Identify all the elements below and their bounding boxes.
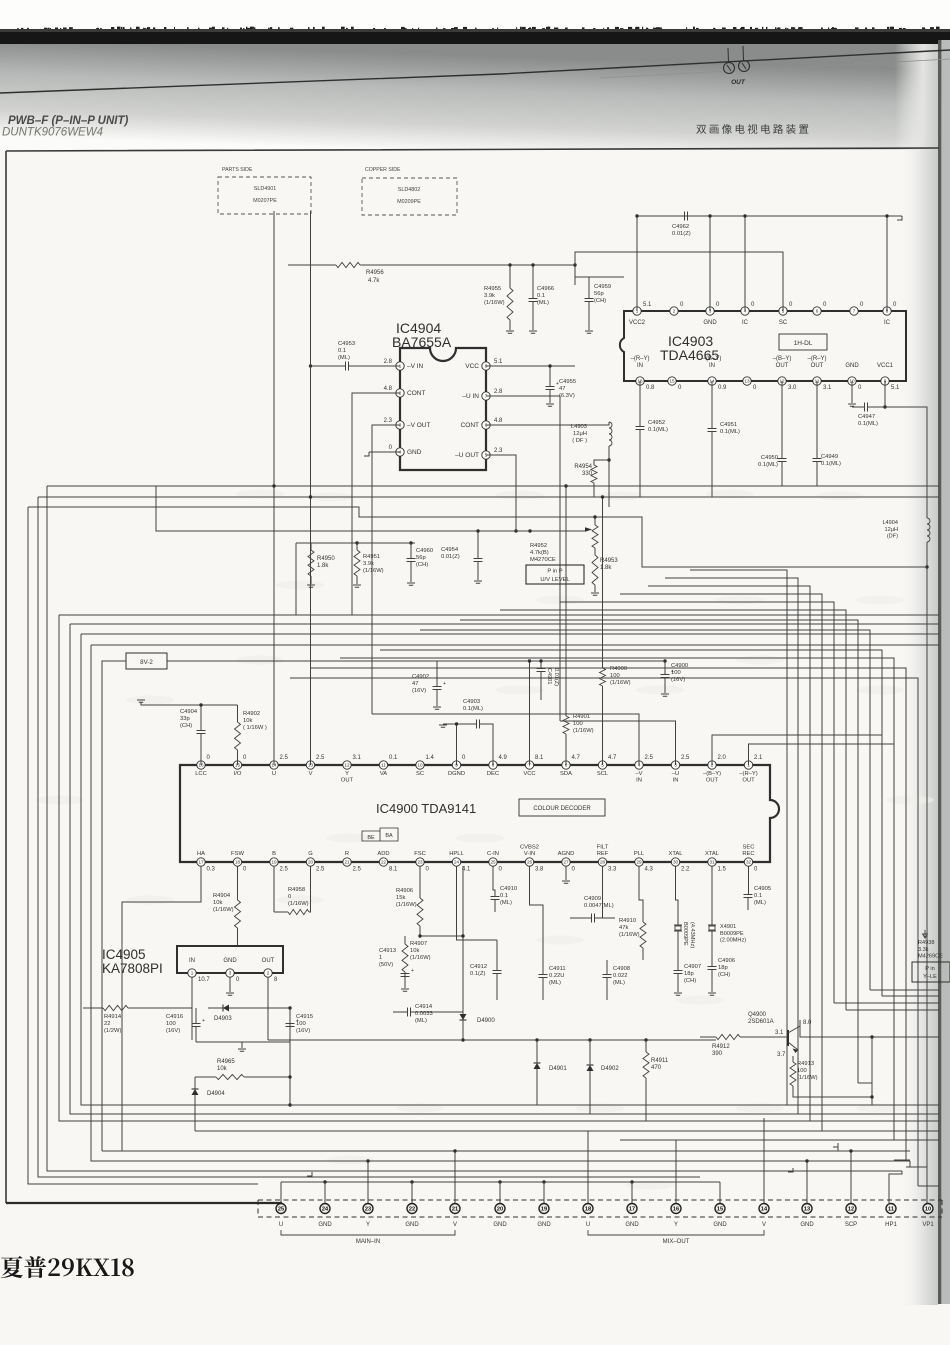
wire nest left column 5 — [70, 624, 939, 1114]
capacitor C4913 1 — [401, 974, 410, 977]
svg-text:10k: 10k — [213, 900, 222, 906]
resistor R4954 330 — [594, 460, 609, 465]
svg-text:GND: GND — [703, 320, 717, 326]
svg-text:2.2: 2.2 — [681, 867, 690, 873]
wire pin6 CONT right — [486, 422, 609, 425]
svg-text:2.5: 2.5 — [353, 867, 362, 873]
svg-text:2: 2 — [267, 971, 270, 976]
ground at rail right — [897, 216, 902, 220]
svg-text:–V OUT: –V OUT — [407, 422, 431, 429]
capacitor C4909 0.0047 — [592, 914, 595, 923]
svg-text:0.3: 0.3 — [207, 867, 216, 873]
svg-text:C4909: C4909 — [584, 896, 601, 902]
OUT probe circles on crease — [724, 46, 750, 86]
svg-text:18p: 18p — [684, 971, 694, 977]
svg-text:0.0033: 0.0033 — [415, 1011, 433, 1017]
svg-text:CONT: CONT — [407, 390, 425, 397]
svg-text:18p: 18p — [718, 965, 728, 971]
resistor R4956 4.7k — [336, 262, 360, 267]
svg-text:IN: IN — [189, 958, 195, 964]
svg-text:3.9k: 3.9k — [484, 293, 495, 299]
regulator IC4905 body — [177, 946, 283, 973]
wire right verticals to connector — [834, 990, 939, 1010]
svg-text:Y: Y — [674, 1222, 678, 1228]
connector pin 19 GND — [539, 1204, 549, 1214]
svg-text:REF: REF — [597, 851, 609, 857]
IC4900 pin 26 CVBS2 V-IN — [525, 858, 533, 866]
IC4900 pin 30 XTAL — [671, 858, 679, 866]
svg-text:18: 18 — [585, 1207, 591, 1213]
IC4900 pin 25 C-IN — [489, 858, 497, 866]
svg-text:2.0: 2.0 — [718, 755, 727, 761]
svg-text:FILT: FILT — [597, 845, 609, 851]
svg-text:U: U — [272, 771, 276, 777]
svg-text:–U OUT: –U OUT — [455, 452, 479, 459]
connector pin 16 Y — [671, 1204, 681, 1214]
capacitor C4914 0.0033 — [408, 1008, 411, 1017]
svg-text:2.1: 2.1 — [754, 755, 763, 761]
wire HA pin left — [122, 866, 201, 1151]
wire 8V-2 left — [102, 661, 910, 1151]
svg-text:GND: GND — [493, 1222, 507, 1228]
svg-text:C4947: C4947 — [858, 414, 875, 420]
wire pin14 V lead — [763, 1118, 765, 1203]
wire VP1 lead — [910, 1161, 927, 1203]
crystal X4901 — [708, 925, 716, 931]
connector pin 11 HP1 — [886, 1204, 896, 1214]
resistor R4911 470 — [643, 1052, 649, 1078]
svg-text:21: 21 — [452, 1207, 458, 1213]
IC4903 pin 3 GND — [706, 307, 714, 315]
svg-text:PWB–F (P–IN–P UNIT): PWB–F (P–IN–P UNIT) — [8, 115, 129, 127]
svg-text:0.1(ML): 0.1(ML) — [758, 462, 778, 468]
svg-text:C4959: C4959 — [594, 284, 611, 290]
svg-text:(1/16W): (1/16W) — [797, 1075, 818, 1081]
resistor R4951 3.9k — [354, 550, 360, 576]
wire right bundle 12 — [290, 678, 918, 1186]
svg-text:+: + — [202, 1018, 205, 1024]
svg-text:0.01(Z): 0.01(Z) — [441, 554, 460, 560]
wire pin8 up — [886, 216, 888, 311]
svg-text:(CH): (CH) — [718, 972, 730, 978]
wire right bundle 10 — [340, 658, 894, 1140]
connector pin 15 GND — [715, 1204, 725, 1214]
svg-text:D4901: D4901 — [549, 1066, 567, 1072]
svg-text:C4951: C4951 — [720, 422, 737, 428]
IC4900 pin 3 –U IN — [671, 761, 679, 769]
colour decoder IC4900 body — [180, 765, 779, 862]
svg-text:R4902: R4902 — [243, 711, 260, 717]
parts side dashed box — [218, 177, 311, 214]
svg-text:MIX–OUT: MIX–OUT — [663, 1239, 690, 1245]
svg-text:U: U — [586, 1222, 590, 1228]
connector pin 18 U — [583, 1204, 593, 1214]
wire rail drop to C4955/C4966 — [574, 265, 576, 285]
wire right bundle 1 — [690, 570, 787, 1105]
svg-text:R4958: R4958 — [288, 887, 305, 893]
svg-text:3.1: 3.1 — [823, 385, 832, 391]
svg-text:8V-2: 8V-2 — [140, 659, 153, 666]
IC4904 pin 2 CONT — [396, 389, 404, 397]
svg-text:R4951: R4951 — [363, 554, 380, 560]
svg-text:L4903: L4903 — [571, 424, 587, 430]
svg-text:OUT: OUT — [811, 363, 824, 369]
svg-text:C4908: C4908 — [613, 966, 630, 972]
svg-text:IN: IN — [636, 777, 642, 783]
wire SCP lead — [838, 1145, 851, 1203]
svg-text:0.1: 0.1 — [500, 893, 508, 899]
svg-text:13: 13 — [744, 379, 750, 384]
svg-text:HPLL: HPLL — [449, 851, 464, 857]
svg-text:12: 12 — [344, 763, 350, 768]
svg-text:C4901: C4901 — [546, 668, 552, 684]
svg-text:2.3: 2.3 — [384, 418, 393, 424]
svg-text:M4269CE: M4269CE — [918, 954, 943, 960]
svg-text:IC: IC — [884, 320, 891, 326]
svg-text:V: V — [309, 771, 313, 777]
svg-text:19: 19 — [541, 1207, 547, 1213]
faint scan mottling (decorative) — [36, 490, 934, 1190]
main border frame — [6, 148, 939, 1203]
svg-text:0.1(ML): 0.1(ML) — [463, 706, 483, 712]
svg-text:OUT: OUT — [776, 363, 789, 369]
svg-text:3.9k: 3.9k — [363, 561, 374, 567]
diode D4904 — [192, 1089, 199, 1095]
svg-text:10k: 10k — [217, 1066, 228, 1072]
wire right bundle 9 — [380, 650, 882, 996]
wire IC4905 gnd — [229, 977, 231, 992]
IC4903 pin 12 –(B–Y) OUT — [778, 377, 786, 385]
diode D4901 — [534, 1063, 541, 1069]
svg-text:GND: GND — [845, 363, 859, 369]
IC4903 pin 16 –(R–Y) IN — [636, 377, 644, 385]
wire R4955 top — [510, 264, 575, 266]
svg-text:3.7: 3.7 — [777, 1052, 786, 1058]
svg-text:(16V): (16V) — [166, 1028, 180, 1034]
svg-text:(ML): (ML) — [415, 1018, 427, 1024]
resistor R4953 1.8k — [592, 555, 598, 585]
svg-text:23: 23 — [417, 860, 423, 865]
svg-text:(16V): (16V) — [296, 1028, 310, 1034]
svg-text:+: + — [443, 681, 446, 687]
wire bus C — [28, 507, 927, 567]
wire nest left column 3 — [28, 507, 258, 1184]
svg-text:SEC: SEC — [743, 845, 755, 851]
svg-text:C4911: C4911 — [549, 966, 566, 972]
connector pin 24 GND — [320, 1204, 330, 1214]
svg-text:–(R–Y): –(R–Y) — [630, 356, 649, 362]
svg-text:(16V): (16V) — [412, 688, 426, 694]
svg-text:12μH: 12μH — [573, 431, 587, 437]
IC4900 pin 1 –(R–Y) OUT — [744, 761, 752, 769]
connector pin 12 SCP — [846, 1204, 856, 1214]
IC4903 pin 14 –(B–Y) IN — [708, 377, 716, 385]
svg-text:C4906: C4906 — [718, 958, 735, 964]
svg-text:D4902: D4902 — [601, 1066, 619, 1072]
capacitor C4950 0.1 — [781, 381, 783, 486]
svg-text:21: 21 — [344, 860, 350, 865]
ground at AGND pin — [565, 866, 567, 880]
svg-text:(1/16W): (1/16W) — [610, 680, 631, 686]
wire Q4900 collector — [800, 1020, 939, 1037]
svg-text:0.01(Z): 0.01(Z) — [553, 668, 559, 686]
svg-text:7: 7 — [853, 309, 856, 314]
resistor R4902 10k — [235, 722, 241, 750]
capacitor C4954 0.01 — [474, 559, 483, 562]
svg-text:(1/16W): (1/16W) — [213, 907, 234, 913]
wire sub rail — [296, 543, 415, 615]
IC4900 pin 27 AGND — [562, 858, 570, 866]
svg-text:4.7k(B): 4.7k(B) — [530, 550, 549, 556]
IC4900 pin 31 XTAL — [708, 858, 716, 866]
svg-text:12μH: 12μH — [885, 527, 899, 533]
IC4900 pin 11 VA — [379, 761, 387, 769]
capacitor C4955 47 — [546, 387, 555, 390]
wire nest left column 7 — [91, 645, 939, 1161]
MAIN-IN bracket — [281, 1230, 455, 1235]
svg-text:P in: P in — [925, 966, 935, 972]
svg-text:B: B — [272, 851, 276, 857]
capacitor C4947 0.1 — [852, 381, 885, 407]
wire pin16 Y lead — [675, 1140, 677, 1203]
svg-text:X4901: X4901 — [720, 924, 736, 930]
resistor R4913 100 — [790, 1062, 796, 1086]
svg-text:470: 470 — [651, 1065, 662, 1071]
connector pin 13 GND — [802, 1204, 812, 1214]
svg-text:R4912: R4912 — [712, 1044, 730, 1050]
svg-text:3: 3 — [229, 971, 232, 976]
svg-text:GND: GND — [537, 1222, 551, 1228]
svg-text:G: G — [308, 851, 313, 857]
svg-text:D4900: D4900 — [477, 1018, 495, 1024]
svg-text:(2.00MHz): (2.00MHz) — [720, 938, 746, 944]
connector pin 17 GND — [627, 1204, 637, 1214]
IC4900 pin 8 DEC — [489, 761, 497, 769]
svg-text:C4954: C4954 — [441, 547, 459, 553]
IC4900 pin 16 LCC — [197, 761, 205, 769]
svg-text:FSC: FSC — [414, 851, 426, 857]
svg-text:100: 100 — [296, 1021, 306, 1027]
svg-text:0.01(Z): 0.01(Z) — [672, 231, 691, 237]
wire pins down to connector — [280, 1182, 282, 1203]
MIX-OUT bracket — [588, 1230, 764, 1235]
IC4900 pin 29 PLL — [635, 858, 643, 866]
svg-text:(1/2W): (1/2W) — [104, 1028, 121, 1034]
svg-text:17: 17 — [629, 1207, 635, 1213]
IC4903 pin 15 nc — [668, 377, 676, 385]
wire pin3 -V OUT left — [372, 425, 400, 714]
svg-text:VA: VA — [380, 771, 387, 777]
svg-text:PARTS SIDE: PARTS SIDE — [222, 167, 253, 173]
svg-text:3.8: 3.8 — [535, 867, 544, 873]
svg-text:B0009PE: B0009PE — [682, 922, 688, 946]
svg-text:OUT: OUT — [742, 777, 755, 783]
svg-text:Q4900: Q4900 — [748, 1012, 767, 1018]
IC4900 pin 32 SEC REC — [744, 858, 752, 866]
connector pin 22 GND — [407, 1204, 417, 1214]
BE BA boxes — [362, 828, 398, 841]
svg-text:Y: Y — [345, 771, 349, 777]
svg-text:0.1(ML): 0.1(ML) — [648, 427, 668, 433]
svg-text:R4910: R4910 — [619, 918, 636, 924]
copper side dashed box — [362, 178, 457, 215]
svg-text:DEC: DEC — [487, 771, 499, 777]
resistor R4906 15k — [417, 898, 423, 926]
IC4903 pin 11 –(R–Y) OUT — [813, 377, 821, 385]
svg-text:( DF ): ( DF ) — [572, 438, 587, 444]
svg-text:(CH): (CH) — [684, 978, 696, 984]
wire SDA/SCL risers — [566, 486, 603, 716]
svg-text:(ML): (ML) — [613, 980, 625, 986]
svg-text:–(R–Y): –(R–Y) — [739, 771, 757, 777]
svg-text:OUT: OUT — [341, 777, 354, 783]
wire nest left column 2 — [38, 497, 700, 1177]
svg-text:C4903: C4903 — [463, 699, 480, 705]
svg-text:(4.43MHz): (4.43MHz) — [689, 922, 695, 948]
transistor Q4900 2SD601A — [787, 1030, 789, 1046]
svg-text:Y–LE: Y–LE — [923, 974, 937, 980]
svg-text:U: U — [279, 1222, 283, 1228]
svg-text:2SD601A: 2SD601A — [748, 1019, 774, 1025]
svg-text:GND: GND — [223, 958, 237, 964]
capacitor C4908 0.022 — [603, 975, 612, 978]
diode D4903 — [223, 1005, 229, 1012]
svg-text:I/O: I/O — [234, 771, 242, 777]
wire right bundle 4 — [620, 594, 822, 1131]
inductor L4903 12uH — [609, 422, 612, 446]
svg-text:5.1: 5.1 — [891, 385, 900, 391]
svg-text:C4966: C4966 — [537, 286, 554, 292]
wire right bundle 11 — [310, 668, 906, 1161]
IC4900 pin 19 B — [270, 858, 278, 866]
svg-text:SC: SC — [779, 320, 788, 326]
svg-text:(ML): (ML) — [754, 900, 766, 906]
IC4904 pin 3 –V OUT — [396, 421, 404, 429]
IC4904 pin 7 –U IN — [482, 392, 490, 400]
wire bus B — [38, 496, 939, 498]
svg-text:(ML): (ML) — [537, 300, 549, 306]
svg-text:SCP: SCP — [845, 1222, 857, 1228]
svg-text:–V IN: –V IN — [407, 363, 424, 370]
svg-text:–U IN: –U IN — [462, 393, 479, 400]
IC4903 pin 6 nc — [813, 307, 821, 315]
svg-text:R4956: R4956 — [366, 270, 384, 276]
connector pin 23 Y — [363, 1204, 373, 1214]
svg-text:C4952: C4952 — [648, 420, 665, 426]
svg-text:GND: GND — [800, 1222, 814, 1228]
svg-text:330: 330 — [582, 471, 593, 477]
connector pin 21 V — [450, 1204, 460, 1214]
IC4900 pin 21 R — [343, 858, 351, 866]
wire D4904 junctions — [289, 1008, 291, 1105]
svg-text:0.0047(ML): 0.0047(ML) — [584, 903, 614, 909]
P in P U/V LEVEL box — [526, 565, 584, 584]
capacitor C4949 0.1 — [816, 381, 818, 486]
svg-text:24: 24 — [322, 1207, 329, 1213]
capacitor C4901 0.01 — [537, 669, 546, 672]
IC4900 pin 2 –(B–Y) OUT — [708, 761, 716, 769]
IC4900 pin 17 HA — [197, 858, 205, 866]
diode D4900 — [460, 1014, 467, 1020]
svg-text:C4962: C4962 — [672, 224, 689, 230]
svg-text:R4952: R4952 — [530, 543, 547, 549]
capacitor C4911 0.22u — [539, 975, 548, 978]
svg-text:ADD: ADD — [377, 851, 389, 857]
connector pin 20 GND — [495, 1204, 505, 1214]
svg-text:R4965: R4965 — [217, 1059, 235, 1065]
svg-text:0.1: 0.1 — [389, 755, 398, 761]
svg-text:30: 30 — [673, 860, 679, 865]
svg-text:–(B–Y): –(B–Y) — [703, 356, 722, 362]
wire pin7 -U IN right — [486, 396, 560, 721]
svg-text:–(R–Y): –(R–Y) — [807, 356, 826, 362]
inductor L4904 12uH — [927, 518, 930, 542]
svg-text:100: 100 — [166, 1021, 176, 1027]
wire drops from IC4904 area — [274, 211, 311, 497]
wire IC4903 top rail — [637, 216, 902, 311]
svg-text:KA7808PI: KA7808PI — [102, 961, 163, 976]
op-amp U IC4904 body — [400, 348, 486, 470]
svg-text:16: 16 — [673, 1207, 679, 1213]
svg-text:1.5: 1.5 — [718, 867, 727, 873]
svg-text:10k: 10k — [243, 718, 252, 724]
svg-text:SLD4802: SLD4802 — [398, 187, 420, 193]
wire C4959 top rail — [575, 276, 624, 278]
IC4903 pin 8 IC — [883, 307, 891, 315]
svg-text:(ML): (ML) — [549, 980, 561, 986]
wire pins14/13 up — [274, 486, 311, 765]
svg-text:AGND: AGND — [558, 851, 575, 857]
IC4900 pin 6 SDA — [562, 761, 570, 769]
svg-text:(1/16W): (1/16W) — [619, 932, 640, 938]
svg-text:(ML): (ML) — [500, 900, 512, 906]
svg-text:SLD4901: SLD4901 — [254, 186, 276, 192]
svg-text:(1/16W): (1/16W) — [288, 901, 309, 907]
wire C4915/C4916 gnd rail — [196, 1042, 290, 1048]
capacitor C4966 0.1 — [529, 299, 538, 302]
svg-text:C4960: C4960 — [416, 548, 433, 554]
svg-text:100: 100 — [671, 670, 681, 676]
svg-text:4.8: 4.8 — [384, 386, 393, 392]
wire right bundle 2 — [665, 578, 798, 1114]
svg-text:IN: IN — [637, 363, 643, 369]
svg-text:0.1(Z): 0.1(Z) — [470, 971, 486, 977]
svg-text:22: 22 — [104, 1021, 110, 1027]
svg-text:R: R — [345, 851, 349, 857]
svg-text:8.1: 8.1 — [535, 755, 544, 761]
svg-text:HA: HA — [197, 851, 205, 857]
svg-text:C4902: C4902 — [412, 674, 429, 680]
svg-text:CONT: CONT — [461, 422, 479, 429]
svg-text:HP1: HP1 — [885, 1222, 897, 1228]
svg-text:1.8k: 1.8k — [317, 563, 329, 569]
svg-text:VP1: VP1 — [922, 1222, 934, 1228]
capacitor C4910 0.1 — [491, 897, 500, 900]
svg-text:10.7: 10.7 — [198, 977, 210, 983]
capacitor C4962 0.01 — [685, 212, 688, 221]
svg-text:+: + — [411, 968, 414, 974]
svg-text:DGND: DGND — [448, 771, 465, 777]
wire HPLL stub to C4912 — [457, 866, 498, 940]
svg-text:D4903: D4903 — [214, 1016, 232, 1022]
svg-text:R4950: R4950 — [317, 556, 335, 562]
wire HP1 lead — [889, 1171, 902, 1203]
IC4904 pin 6 CONT — [482, 421, 490, 429]
svg-text:0: 0 — [288, 894, 291, 900]
svg-text:C4953: C4953 — [338, 341, 355, 347]
svg-text:2.5: 2.5 — [316, 755, 325, 761]
svg-text:4.7k: 4.7k — [368, 278, 380, 284]
